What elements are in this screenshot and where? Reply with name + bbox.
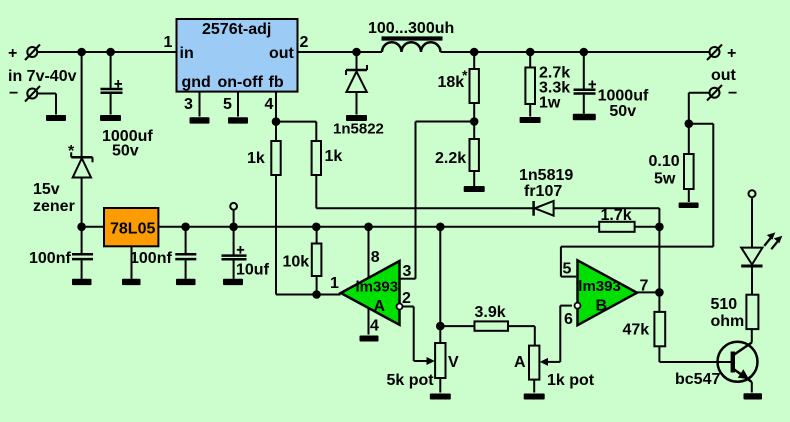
- svg-text:1.7k: 1.7k: [601, 207, 632, 224]
- svg-text:4: 4: [265, 96, 274, 113]
- svg-text:A: A: [514, 354, 526, 371]
- svg-text:10k: 10k: [283, 254, 310, 271]
- svg-text:+: +: [727, 45, 736, 62]
- svg-text:B: B: [596, 298, 608, 315]
- svg-text:8: 8: [371, 249, 380, 266]
- svg-text:1w: 1w: [539, 95, 561, 112]
- svg-text:1: 1: [330, 275, 339, 292]
- svg-text:+: +: [8, 45, 17, 62]
- svg-text:10uf: 10uf: [236, 262, 270, 279]
- svg-text:1n5819: 1n5819: [519, 167, 573, 184]
- svg-text:ohm: ohm: [711, 313, 745, 330]
- svg-text:6: 6: [564, 311, 573, 328]
- svg-text:50v: 50v: [609, 103, 636, 120]
- svg-text:100nf: 100nf: [130, 250, 172, 267]
- svg-text:out: out: [269, 45, 295, 62]
- svg-text:7: 7: [640, 278, 649, 295]
- svg-text:*: *: [462, 67, 468, 83]
- svg-text:2: 2: [300, 34, 309, 51]
- svg-text:15v: 15v: [33, 181, 60, 198]
- svg-text:5k pot: 5k pot: [387, 372, 435, 389]
- svg-text:1n5822: 1n5822: [333, 121, 384, 138]
- svg-text:78L05: 78L05: [110, 221, 155, 238]
- svg-text:3: 3: [184, 96, 193, 113]
- svg-text:−: −: [728, 85, 737, 102]
- svg-text:4: 4: [370, 318, 379, 335]
- svg-text:2.2k: 2.2k: [435, 150, 466, 167]
- svg-text:1k pot: 1k pot: [547, 372, 595, 389]
- svg-text:47k: 47k: [623, 322, 650, 339]
- svg-text:1k: 1k: [247, 150, 265, 167]
- svg-text:bc547: bc547: [675, 371, 720, 388]
- svg-text:50v: 50v: [112, 143, 139, 160]
- svg-text:−: −: [9, 85, 18, 102]
- svg-text:fr107: fr107: [524, 183, 562, 200]
- svg-text:out: out: [711, 67, 737, 84]
- svg-text:fb: fb: [269, 74, 284, 91]
- svg-text:in: in: [180, 45, 194, 62]
- svg-text:lm393: lm393: [356, 279, 399, 296]
- svg-text:zener: zener: [33, 198, 75, 215]
- svg-text:in 7v-40v: in 7v-40v: [8, 68, 77, 85]
- svg-text:2: 2: [402, 290, 411, 307]
- svg-text:1k: 1k: [325, 148, 343, 165]
- svg-text:gnd: gnd: [182, 74, 211, 91]
- svg-text:5: 5: [223, 96, 232, 113]
- svg-text:*: *: [68, 143, 75, 160]
- svg-text:18k: 18k: [438, 74, 465, 91]
- svg-text:100nf: 100nf: [29, 250, 71, 267]
- svg-text:A: A: [374, 298, 386, 315]
- svg-text:5: 5: [563, 261, 572, 278]
- svg-text:1: 1: [164, 34, 173, 51]
- svg-text:100...300uh: 100...300uh: [368, 20, 454, 37]
- svg-text:lm393: lm393: [578, 278, 621, 295]
- svg-text:0.10: 0.10: [649, 153, 680, 170]
- svg-text:on-off: on-off: [218, 74, 264, 91]
- svg-text:5w: 5w: [654, 171, 676, 188]
- svg-text:3.9k: 3.9k: [475, 304, 506, 321]
- svg-text:V: V: [448, 354, 459, 371]
- svg-text:2576t-adj: 2576t-adj: [202, 21, 271, 38]
- svg-text:3: 3: [403, 263, 412, 280]
- svg-text:510: 510: [711, 296, 738, 313]
